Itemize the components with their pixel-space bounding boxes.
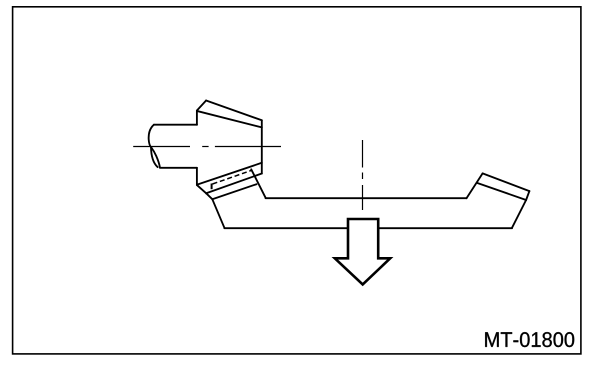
arm left corner segment (206, 193, 212, 199)
pad left edge (467, 173, 483, 198)
horizontal centerline (133, 146, 281, 148)
shaft end arc (149, 125, 160, 168)
shaft end face lens (151, 147, 158, 167)
cone top band lower line (198, 111, 262, 127)
arm outer left edge (212, 199, 224, 228)
pad right end edge (526, 191, 529, 200)
hidden line tick (211, 184, 213, 190)
cone bottom chamfer (197, 185, 206, 193)
direction arrow (335, 219, 390, 285)
cone peak edge (197, 101, 206, 111)
pad lower right edge (512, 200, 526, 228)
figure label MT-01800 (485, 332, 574, 347)
cone top band upper line (206, 101, 262, 121)
shaft bottom line (160, 167, 197, 169)
arm upper back edge (206, 174, 262, 194)
arm top-left steep edge (251, 169, 265, 198)
pad band upper line (483, 173, 530, 191)
pad band lower line (478, 183, 526, 200)
cone bottom silhouette (198, 163, 262, 185)
cone right edge (261, 120, 263, 173)
hidden edge dashed line (213, 170, 253, 184)
cone left face lower (196, 168, 198, 185)
vertical centerline (362, 140, 364, 210)
arm lower front edge (212, 184, 256, 199)
shaft top line (154, 124, 197, 126)
cone left face upper (196, 111, 198, 125)
arm bottom line (224, 227, 512, 229)
arm top line (266, 197, 467, 199)
